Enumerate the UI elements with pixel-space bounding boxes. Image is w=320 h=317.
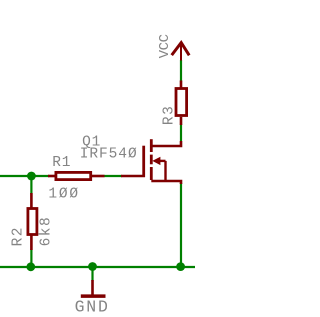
svg-text:VCC: VCC (157, 34, 173, 58)
node junction rail / source column (176, 262, 185, 271)
node junction rail / GND (88, 262, 97, 271)
wire: R2 column top (30, 176, 32, 194)
resistor R3 pins (180, 81, 183, 89)
transistor Q1 source pin (151, 181, 181, 184)
node junction rail / R2 bottom (26, 262, 35, 271)
resistor R3 body (176, 89, 187, 116)
resistor R1 pins (48, 175, 55, 178)
supply VCC symbol arrow (172, 43, 190, 61)
svg-text:R1: R1 (52, 155, 71, 171)
wire: R2 column bottom (30, 249, 32, 267)
transistor Q1 drain pin (151, 141, 181, 146)
svg-text:GND: GND (75, 298, 110, 317)
ground symbol bar (81, 294, 106, 298)
ground symbol stem (91, 280, 94, 295)
resistor R2 pins (30, 193, 33, 208)
transistor Q1 channel top segment (150, 139, 153, 152)
resistor R2 body (28, 209, 37, 235)
wire: bottom rail (0, 266, 195, 268)
svg-text:IRF54Ø: IRF54Ø (80, 146, 138, 162)
svg-text:1ØØ: 1ØØ (48, 186, 80, 202)
transistor Q1 channel bottom segment (150, 167, 153, 180)
wire: source column down to rail (180, 183, 182, 267)
node junction at R1 left / R2 top (27, 172, 36, 181)
wire: R3 top to VCC (180, 60, 182, 82)
transistor Q1 bulk arrow (152, 157, 165, 181)
wire: R1 right to gate (104, 175, 122, 177)
wire: left horizontal net to R1 (0, 175, 49, 177)
svg-text:6k8: 6k8 (38, 216, 54, 247)
svg-text:R2: R2 (10, 226, 26, 246)
wire: GND stem upper (91, 267, 93, 281)
resistor R1 body (56, 172, 91, 179)
transistor Q1 channel middle segment (150, 155, 153, 165)
wire: drain column (180, 125, 182, 142)
svg-text:R3: R3 (162, 105, 178, 125)
transistor Q1 gate bar (142, 146, 145, 177)
transistor Q1 gate pin (121, 175, 145, 178)
